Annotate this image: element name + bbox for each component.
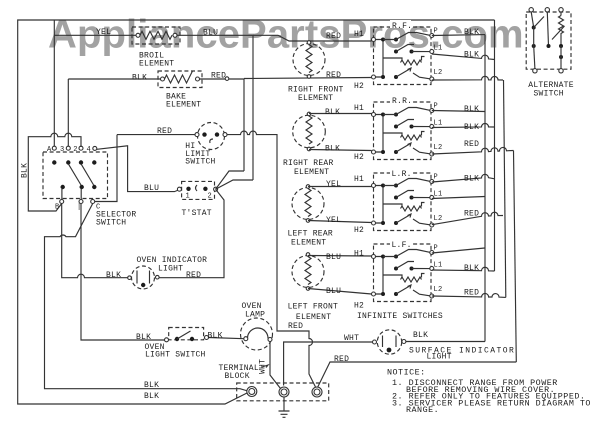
svg-text:L2: L2 [434,144,443,152]
svg-text:WHT: WHT [344,334,359,343]
svg-text:L2: L2 [434,215,443,223]
svg-text:LIGHT SWITCH: LIGHT SWITCH [145,350,206,359]
svg-text:AppliancePartsPros.com: AppliancePartsPros.com [48,13,524,57]
svg-text:SWITCH: SWITCH [185,158,215,167]
svg-text:A: A [47,146,52,154]
svg-text:L.R.: L.R. [392,170,412,179]
svg-text:BLK: BLK [208,332,223,341]
svg-text:YEL: YEL [326,180,341,189]
svg-text:INFINITE SWITCHES: INFINITE SWITCHES [357,312,443,321]
svg-text:BLK: BLK [144,392,159,401]
svg-text:BLK: BLK [464,264,479,273]
svg-text:H2: H2 [354,153,364,162]
svg-text:3: 3 [60,146,64,154]
svg-text:BLK: BLK [464,123,479,132]
svg-text:L.F.: L.F. [392,241,412,250]
svg-text:L1: L1 [434,191,443,199]
svg-text:LIGHT: LIGHT [158,265,183,274]
svg-text:L2: L2 [434,69,443,77]
svg-text:BLOCK: BLOCK [225,372,250,381]
svg-text:BLK: BLK [464,28,479,37]
svg-text:BLK: BLK [144,381,159,390]
svg-text:ELEMENT: ELEMENT [296,313,331,322]
svg-text:BLU: BLU [144,184,159,193]
svg-text:YEL: YEL [326,216,341,225]
svg-text:H1: H1 [354,175,364,184]
svg-text:H2: H2 [354,226,364,235]
svg-text:T'STAT: T'STAT [182,209,212,218]
svg-text:BLK: BLK [464,105,479,114]
svg-text:BLU: BLU [326,253,341,262]
svg-text:BLK: BLK [132,74,147,83]
svg-text:H1: H1 [354,104,364,113]
svg-text:H1: H1 [354,250,364,259]
svg-text:BLK: BLK [464,51,479,60]
svg-text:BLU: BLU [203,29,218,38]
svg-text:RED: RED [464,140,479,149]
svg-text:H2: H2 [354,82,364,91]
svg-text:ELEMENT: ELEMENT [139,60,174,69]
svg-text:BLK: BLK [136,333,151,342]
svg-text:RED: RED [211,72,226,81]
svg-text:YEL: YEL [96,28,111,37]
svg-text:P: P [434,28,438,36]
svg-text:LIGHT: LIGHT [427,353,452,362]
svg-text:2: 2 [208,193,212,201]
svg-text:SURFACE INDICATOR: SURFACE INDICATOR [409,346,515,355]
svg-text:RED: RED [326,71,341,80]
svg-text:ELEMENT: ELEMENT [294,168,329,177]
svg-text:BLK: BLK [464,175,479,184]
svg-text:LAMP: LAMP [245,311,265,320]
svg-text:1: 1 [186,193,190,201]
svg-text:H1: H1 [354,30,364,39]
svg-text:RED: RED [288,322,303,331]
svg-text:RED: RED [326,32,341,41]
svg-text:RED: RED [186,271,201,280]
svg-text:BLK: BLK [106,271,121,280]
svg-text:P: P [434,245,438,253]
svg-text:P: P [434,103,438,111]
svg-text:L2: L2 [434,286,443,294]
svg-text:LEFT FRONT: LEFT FRONT [288,303,339,312]
svg-text:SWITCH: SWITCH [534,89,564,98]
svg-text:L1: L1 [434,262,443,270]
svg-text:BLK: BLK [325,145,340,154]
svg-text:RIGHT REAR: RIGHT REAR [283,159,334,168]
svg-text:RED: RED [334,355,349,364]
svg-text:RANGE.: RANGE. [406,405,439,415]
svg-text:R.F.: R.F. [392,22,412,31]
svg-text:SWITCH: SWITCH [96,219,126,228]
svg-text:RED: RED [464,210,479,219]
svg-text:R.R.: R.R. [392,97,412,106]
svg-text:ELEMENT: ELEMENT [166,101,201,110]
svg-text:L1: L1 [434,120,443,128]
svg-text:BLU: BLU [326,287,341,296]
svg-text:P: P [434,174,438,182]
svg-text:BLK: BLK [413,331,428,340]
svg-text:ELEMENT: ELEMENT [291,238,326,247]
svg-text:NOTICE:: NOTICE: [387,368,426,378]
svg-text:BLK: BLK [325,108,340,117]
svg-text:H2: H2 [354,302,364,311]
svg-text:L1: L1 [434,45,443,53]
svg-text:2: 2 [73,146,77,154]
svg-text:RED: RED [157,127,172,136]
svg-text:ELEMENT: ELEMENT [298,94,333,103]
svg-text:RED: RED [464,289,479,298]
svg-text:4: 4 [87,146,91,154]
